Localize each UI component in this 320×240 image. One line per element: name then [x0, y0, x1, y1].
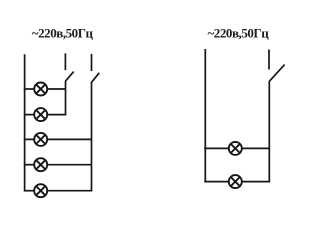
switch S2 arm — [92, 73, 100, 83]
wire lamp L5 right wire to right rail — [47, 190, 92, 192]
wire lamp L2 right wire to node A branch — [47, 114, 66, 116]
wire left rail (left circuit) — [24, 54, 26, 190]
svg-text:~220в,50Гц: ~220в,50Гц — [208, 25, 270, 40]
lamp L4 — [34, 158, 47, 171]
lamp L5 — [34, 184, 47, 197]
switch S2 top lead — [91, 54, 93, 71]
lamp R1 — [229, 142, 242, 155]
switch S3 top lead — [268, 50, 270, 70]
wire lamp L2 left stub — [24, 114, 35, 116]
switch S3 arm — [269, 65, 284, 82]
wire lamp R2 left wire — [204, 181, 229, 183]
lamp L1 — [34, 83, 47, 96]
wire lamp L4 left stub — [24, 164, 35, 166]
wire lamp L1 left stub — [24, 88, 35, 90]
wire branch vertical node A (lamps L1,L2 to switch S1) — [65, 81, 67, 115]
svg-text:~220в,50Гц: ~220в,50Гц — [32, 25, 94, 40]
lamp L2 — [34, 108, 47, 121]
wire left rail (right circuit) — [204, 49, 206, 182]
wire lamp L1 right wire to node A — [47, 88, 66, 90]
wire right rail (left circuit) — [91, 82, 93, 191]
wire right rail (right circuit) — [268, 81, 270, 182]
switch S1 top lead — [64, 53, 66, 70]
wire lamp R2 right wire — [242, 181, 271, 183]
wire lamp L3 left stub — [24, 138, 35, 140]
wire lamp L4 right wire to right rail — [47, 164, 92, 166]
lamp R2 — [229, 175, 242, 188]
wire lamp R1 right wire — [242, 147, 271, 149]
switch S1 arm — [65, 72, 73, 82]
wire lamp L3 right wire to right rail — [47, 138, 92, 140]
wire lamp R1 left wire — [204, 147, 229, 149]
lamp L3 — [34, 133, 47, 146]
wire lamp L5 left stub — [24, 190, 35, 192]
